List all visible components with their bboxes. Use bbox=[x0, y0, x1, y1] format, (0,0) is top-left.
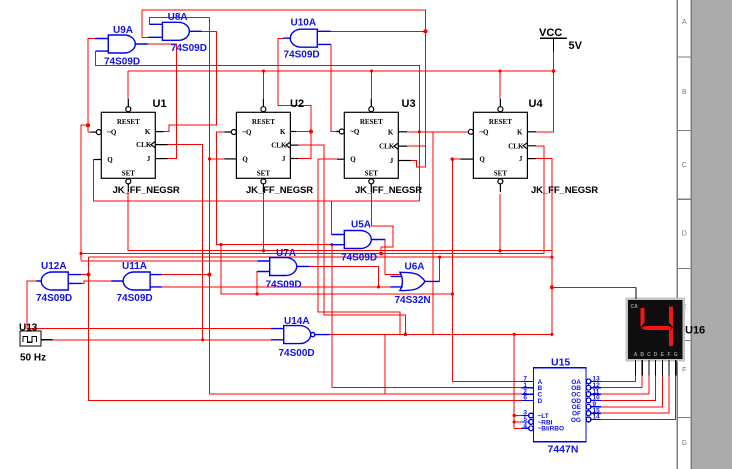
display U16 seven-segment bbox=[627, 299, 684, 360]
wire U5A input1 riser bbox=[330, 201, 332, 235]
gate U5A 74S09D AND bbox=[344, 231, 371, 249]
svg-text:U2: U2 bbox=[290, 98, 304, 110]
U3 J pin stub bbox=[398, 160, 411, 162]
svg-text:K: K bbox=[280, 128, 286, 136]
svg-text:~Q: ~Q bbox=[107, 129, 117, 137]
U4 Q pin stub bbox=[460, 158, 473, 160]
svg-text:7447N: 7447N bbox=[548, 444, 579, 456]
wire U2 K/J from U10A output bbox=[278, 38, 311, 158]
svg-text:74S09D: 74S09D bbox=[104, 56, 140, 67]
U1 SET pin bottom bubble bbox=[126, 179, 131, 184]
wire U11A.in1 riser bbox=[162, 274, 210, 276]
svg-text:74S09D: 74S09D bbox=[117, 293, 153, 304]
wire U10A top input to junction bbox=[331, 30, 426, 32]
svg-text:G: G bbox=[682, 440, 687, 447]
wire U15 row C bbox=[209, 393, 521, 395]
svg-text:D: D bbox=[682, 231, 687, 238]
svg-text:B: B bbox=[640, 352, 644, 358]
svg-text:U8A: U8A bbox=[168, 12, 188, 23]
wire U15.D / V_a' column x=88.5 bbox=[89, 257, 522, 400]
wire U1.~Q branch down to L1 bbox=[81, 125, 88, 260]
svg-text:SET: SET bbox=[122, 170, 136, 178]
flip-flop U1 JK_FF_NEGSR box bbox=[101, 112, 155, 178]
gate U12A 74S09D AND mirrored bbox=[41, 272, 68, 290]
svg-text:Q: Q bbox=[350, 156, 356, 164]
svg-text:Q: Q bbox=[242, 155, 248, 163]
svg-text:74S09D: 74S09D bbox=[36, 293, 72, 304]
wire LT/RBI/BI feed bbox=[514, 334, 521, 428]
svg-text:U3: U3 bbox=[402, 98, 416, 110]
wire U7A.out stair to U6A.in2 bbox=[310, 266, 379, 287]
U2 K pin stub bbox=[290, 131, 296, 133]
wire U8A output to U1.K bbox=[164, 31, 217, 131]
svg-text:U1: U1 bbox=[153, 98, 167, 110]
svg-text:RESET: RESET bbox=[117, 118, 140, 126]
wire U8A top input from U2 Q (y=17.3 run, x=209.4 column) bbox=[149, 17, 209, 24]
gate U10A 74S09D AND mirrored bbox=[290, 29, 317, 47]
svg-text:6: 6 bbox=[523, 395, 527, 402]
svg-text:14: 14 bbox=[593, 414, 601, 421]
svg-text:RESET: RESET bbox=[489, 118, 512, 126]
svg-text:~Q: ~Q bbox=[350, 128, 360, 136]
segment C (bottom-right) bbox=[669, 328, 673, 346]
svg-text:U11A: U11A bbox=[122, 261, 147, 272]
wire U8A bottom input net (long top run y=10.5) bbox=[142, 10, 426, 146]
flip-flop U2 JK_FF_NEGSR box bbox=[236, 112, 290, 178]
svg-text:A: A bbox=[634, 352, 638, 358]
svg-text:A: A bbox=[682, 19, 687, 26]
svg-text:C: C bbox=[682, 162, 687, 169]
svg-text:SET: SET bbox=[494, 170, 508, 178]
wire U15 output fan to display bbox=[601, 376, 676, 420]
gate U7A 74S09D AND bbox=[270, 258, 297, 276]
wire U14A output run y=334.3 bbox=[330, 333, 552, 335]
wire U12A output to U14A.in1 run y=328 bbox=[27, 281, 271, 329]
svg-text:U4: U4 bbox=[529, 98, 544, 110]
svg-text:Q: Q bbox=[479, 156, 485, 164]
wire U2.~Q to U5A input2 y=244.7 bbox=[217, 132, 332, 245]
svg-text:K: K bbox=[388, 128, 394, 136]
svg-text:J: J bbox=[390, 157, 394, 165]
svg-text:VCC: VCC bbox=[539, 27, 562, 39]
svg-text:JK_FF_NEGSR: JK_FF_NEGSR bbox=[246, 185, 313, 196]
gate U11A 74S09D AND mirrored bbox=[123, 272, 150, 290]
U3 Q pin stub bbox=[337, 158, 344, 160]
U1 RESET pin top bubble bbox=[126, 107, 131, 112]
svg-text:U9A: U9A bbox=[113, 25, 133, 36]
svg-text:G: G bbox=[674, 352, 678, 358]
svg-text:~BI/RBO: ~BI/RBO bbox=[538, 426, 565, 433]
display pin leads bbox=[636, 287, 676, 375]
sheet border column + grey outside area bbox=[692, 0, 732, 469]
wire U12A.in1 stub link bbox=[81, 274, 89, 276]
power VCC 5V symbol bbox=[540, 38, 567, 52]
U3 SET pin bottom bubble bbox=[369, 179, 374, 184]
svg-text:C: C bbox=[647, 352, 651, 358]
U4 RESET pin top bubble bbox=[498, 107, 503, 112]
segment G (middle) bbox=[641, 326, 672, 330]
wire U11A.in2 / U6A.in2 run y=286.9 bbox=[162, 286, 391, 288]
svg-text:4: 4 bbox=[523, 423, 527, 430]
node junction dots bbox=[86, 123, 90, 127]
wire U9A input1 from U1.~Q bbox=[88, 39, 95, 133]
svg-text:SET: SET bbox=[257, 170, 271, 178]
svg-text:K: K bbox=[517, 128, 523, 136]
U4 K pin stub bbox=[527, 131, 536, 133]
svg-text:Q: Q bbox=[107, 156, 113, 164]
svg-text:74S09D: 74S09D bbox=[266, 280, 302, 291]
svg-text:JK_FF_NEGSR: JK_FF_NEGSR bbox=[355, 185, 422, 196]
gate U6A 74S32N OR bbox=[400, 272, 425, 290]
svg-text:D: D bbox=[654, 352, 658, 358]
svg-text:74S09D: 74S09D bbox=[341, 252, 377, 263]
svg-text:F: F bbox=[682, 367, 686, 374]
svg-text:CLK: CLK bbox=[136, 141, 152, 149]
svg-text:U12A: U12A bbox=[41, 261, 67, 272]
svg-text:U10A: U10A bbox=[291, 18, 317, 29]
wire L2 y=257.2 (U6A out to U4.J column) bbox=[89, 256, 552, 258]
wire VCC stem red to U4.K bbox=[536, 52, 554, 132]
svg-text:J: J bbox=[519, 155, 523, 163]
svg-text:RESET: RESET bbox=[252, 118, 275, 126]
wire U1.Q long run y=201 bbox=[94, 160, 420, 202]
wire U11A output to U12A.in2 bbox=[82, 281, 112, 283]
svg-text:74S09D: 74S09D bbox=[284, 49, 320, 60]
gate U9A 74S09D AND bbox=[108, 35, 135, 53]
svg-text:74S09D: 74S09D bbox=[171, 43, 207, 54]
gate U14A 74S00D NAND bbox=[284, 326, 311, 344]
svg-text:74S00D: 74S00D bbox=[279, 348, 315, 359]
wire U14A out branch to row C bbox=[384, 334, 386, 394]
segment F (top-left) bbox=[641, 308, 645, 327]
U2 CLK pin wedge and stub bbox=[286, 142, 298, 148]
flip-flop U3 JK_FF_NEGSR box bbox=[344, 112, 398, 178]
svg-text:OG: OG bbox=[571, 417, 581, 424]
U4 CLK pin wedge and stub bbox=[523, 143, 536, 149]
U1 ~Q pin bubble and stub bbox=[96, 130, 101, 135]
svg-text:U6A: U6A bbox=[405, 262, 425, 273]
svg-text:CA: CA bbox=[631, 304, 639, 310]
svg-text:~Q: ~Q bbox=[242, 129, 252, 137]
U2 RESET pin top bubble bbox=[261, 107, 266, 112]
gate U8A 74S09D AND bbox=[162, 22, 189, 40]
U2 J pin stub bbox=[290, 158, 298, 160]
display CA lead bbox=[635, 287, 637, 299]
U2 Q pin stub bbox=[225, 158, 237, 160]
U3 K pin stub bbox=[398, 131, 407, 133]
U3 RESET pin top bubble bbox=[369, 107, 374, 112]
wire U2.Q / U15.C column x=209.4 bbox=[209, 17, 224, 394]
wire U3.SET staircase bbox=[372, 192, 393, 253]
U3 CLK pin wedge and stub bbox=[394, 143, 407, 149]
U4 SET pin bottom bubble bbox=[498, 179, 503, 184]
wire U4.Q to U15.A column x=452.3 bbox=[452, 159, 460, 381]
svg-text:CLK: CLK bbox=[508, 142, 524, 150]
clock source U13 50 Hz bbox=[20, 331, 53, 346]
U3 ~Q pin bubble and stub bbox=[339, 129, 344, 134]
svg-text:CLK: CLK bbox=[271, 142, 287, 150]
wire U1.CLK down x=202.7 bbox=[168, 145, 203, 340]
U2 ~Q pin bubble and stub bbox=[231, 130, 236, 135]
svg-text:RESET: RESET bbox=[360, 118, 383, 126]
wire U3 CLK from junction column bbox=[407, 146, 426, 167]
wire U5A output to U6A.in1 bbox=[385, 240, 401, 275]
svg-text:~Q: ~Q bbox=[479, 128, 489, 136]
wire U3.K to U4.~Q row y=131.8 bbox=[407, 131, 468, 133]
svg-text:JK_FF_NEGSR: JK_FF_NEGSR bbox=[113, 185, 180, 196]
svg-text:SET: SET bbox=[365, 170, 379, 178]
svg-text:U13: U13 bbox=[19, 323, 38, 334]
wire U9A output to U1.J bbox=[148, 44, 177, 159]
svg-text:JK_FF_NEGSR: JK_FF_NEGSR bbox=[531, 185, 598, 196]
U1 K pin stub bbox=[155, 131, 163, 133]
segment B (top-right) bbox=[669, 307, 673, 328]
wire CA line bbox=[552, 286, 636, 288]
wire U15 row B bbox=[332, 387, 522, 389]
wire U13 output run y=339.8 bbox=[53, 339, 272, 341]
wire U2.~Q branch to 294 run bbox=[221, 245, 452, 294]
svg-text:74S32N: 74S32N bbox=[395, 295, 431, 306]
wire U7A.in2 riser bbox=[256, 272, 258, 295]
wire long vertical x=433 (U3.K row to U14A output run) bbox=[432, 132, 434, 334]
wire U15.B riser x=331.8 bbox=[331, 245, 333, 388]
flip-flop U4 JK_FF_NEGSR box bbox=[473, 112, 527, 178]
U1 J pin stub bbox=[155, 158, 168, 160]
wire U1.SET / SET rail L0 bbox=[128, 192, 552, 251]
wire U9A input2 / rail1 y=65.3 to U3.K row bbox=[96, 51, 420, 201]
wire U6A output riser bbox=[439, 257, 441, 281]
wire U3.~Q to U10A input2 bbox=[331, 44, 336, 131]
U1 Q pin stub bbox=[94, 159, 102, 161]
wire L1 y=253.5 (U1.~Q to U4.CLK rail) bbox=[81, 146, 544, 254]
wire U15 row A bbox=[452, 380, 521, 382]
svg-text:U15: U15 bbox=[551, 357, 570, 369]
wire U4.J down x=551.8 / CA / LT feed bbox=[536, 159, 552, 335]
svg-text:K: K bbox=[145, 128, 151, 136]
svg-text:CLK: CLK bbox=[379, 143, 395, 151]
wire U3.Q down x=317.8 to U14A out run bbox=[318, 159, 400, 334]
svg-text:J: J bbox=[282, 155, 286, 163]
svg-text:B: B bbox=[682, 89, 687, 96]
wire U2.CLK down x=324.2 bbox=[298, 145, 405, 334]
svg-text:F: F bbox=[667, 352, 670, 358]
svg-text:U16: U16 bbox=[685, 325, 705, 337]
svg-text:U5A: U5A bbox=[351, 220, 371, 231]
svg-text:U14A: U14A bbox=[284, 316, 310, 327]
wire U4.CLK stub bbox=[536, 145, 544, 147]
U1 CLK pin wedge and stub bbox=[151, 142, 168, 148]
U4 J pin stub bbox=[527, 158, 536, 160]
svg-text:D: D bbox=[538, 398, 543, 405]
svg-text:5V: 5V bbox=[569, 40, 583, 52]
U4 ~Q pin bubble and stub bbox=[468, 129, 473, 134]
wire RESET rail y=71 bbox=[128, 71, 554, 99]
svg-text:J: J bbox=[147, 155, 151, 163]
svg-text:50 Hz: 50 Hz bbox=[20, 353, 46, 364]
wire L3 y=260.5 to U7A input1 bbox=[81, 260, 258, 262]
svg-text:U7A: U7A bbox=[276, 248, 296, 259]
IC U15 7447N box bbox=[522, 368, 601, 442]
U2 SET pin bottom bubble bbox=[261, 179, 266, 184]
